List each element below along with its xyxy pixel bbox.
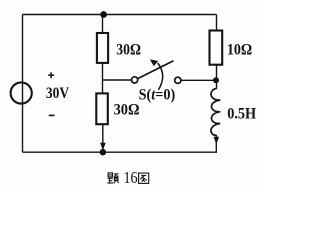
- voltage source circle 30V: [11, 82, 32, 103]
- svg-text:30Ω: 30Ω: [114, 100, 140, 119]
- resistor R1 30ohm (top middle): [97, 33, 108, 63]
- wire between 30-ohm resistors: [102, 63, 104, 94]
- wire left vertical: [22, 15, 24, 153]
- switch closing arc arrow: [158, 63, 163, 90]
- arrowhead on middle branch (down): [100, 143, 106, 151]
- wire right vertical upper: [216, 15, 218, 32]
- svg-text:16: 16: [124, 168, 138, 187]
- inductor L 0.5H coil: [211, 88, 220, 135]
- wire middle branch upper: [102, 15, 104, 34]
- caption hanzi TI (problem): [107, 173, 118, 183]
- wire switch branch left: [103, 79, 132, 81]
- resistor R2 30ohm (bottom middle): [96, 93, 108, 124]
- wire switch branch right: [181, 79, 216, 81]
- wire top horizontal: [23, 14, 217, 16]
- minus sign of source: [49, 114, 55, 116]
- svg-text:10Ω: 10Ω: [227, 40, 252, 59]
- node right junction: [213, 77, 219, 83]
- switch S right contact circle: [175, 77, 181, 83]
- arrowhead on inductor branch (down): [214, 137, 220, 145]
- node bottom junction: [100, 149, 107, 156]
- node top junction: [100, 11, 107, 18]
- wire right between resistor and node: [216, 64, 218, 89]
- wire middle branch lower: [102, 124, 104, 151]
- wire right vertical lower: [215, 135, 217, 152]
- svg-text:30Ω: 30Ω: [116, 40, 141, 59]
- wire bottom horizontal: [23, 151, 218, 153]
- resistor R3 10ohm (right): [210, 31, 223, 65]
- caption hanzi TU (figure): [139, 173, 149, 183]
- svg-text:30V: 30V: [46, 83, 69, 102]
- switch blade: [138, 61, 174, 79]
- svg-text:S(t=0): S(t=0): [139, 86, 176, 103]
- plus sign of source: [48, 72, 54, 78]
- switch S left contact circle: [132, 77, 138, 83]
- svg-text:0.5H: 0.5H: [227, 104, 256, 123]
